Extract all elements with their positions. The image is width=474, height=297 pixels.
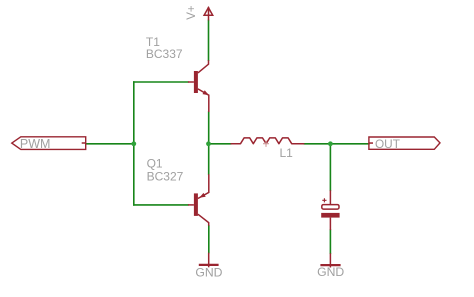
svg-text:V+: V+: [186, 5, 198, 20]
svg-text:L1: L1: [280, 146, 294, 160]
svg-text:GND: GND: [317, 265, 344, 279]
svg-text:OUT: OUT: [375, 137, 400, 151]
svg-text:PWM: PWM: [20, 137, 51, 151]
svg-text:BC327: BC327: [147, 169, 184, 183]
svg-text:GND: GND: [195, 265, 222, 279]
svg-text:BC337: BC337: [146, 47, 183, 61]
